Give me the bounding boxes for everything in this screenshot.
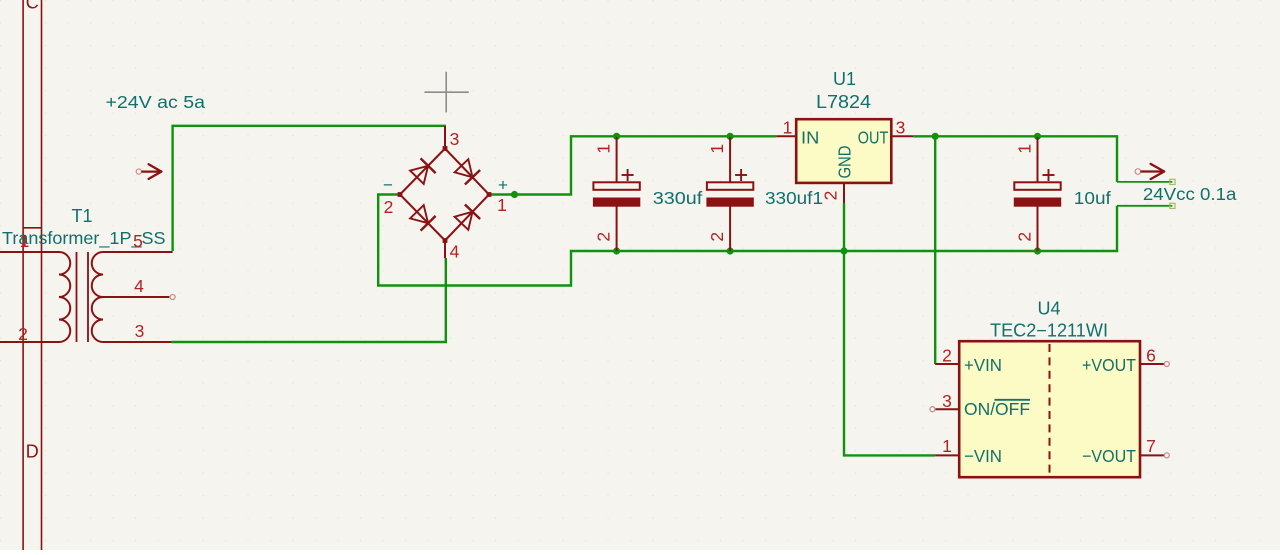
svg-text:1: 1: [783, 118, 793, 138]
transformer T1 secondary winding top (pins 5-4): [92, 252, 103, 297]
svg-text:4: 4: [134, 276, 144, 296]
svg-text:2: 2: [1015, 232, 1035, 242]
svg-text:24Vcc 0.1a: 24Vcc 0.1a: [1143, 184, 1237, 204]
svg-text:T1: T1: [71, 206, 92, 226]
bridge diode bottom-right (anode at AC bottom, cathode at +): [455, 212, 473, 230]
U4 pin 7 open end circle: [1164, 453, 1169, 458]
bridge pin 3 stub to AC top: [444, 126, 446, 149]
U1 pin 3 OUT line: [891, 135, 913, 137]
junction OUT node: [932, 133, 939, 140]
capacitor C3 10uf plus sign: [1043, 174, 1055, 176]
right arrow marker: [1135, 164, 1164, 179]
svg-text:330uf: 330uf: [653, 188, 703, 208]
svg-text:330uf1: 330uf1: [765, 188, 823, 208]
junction C1 top: [613, 133, 620, 140]
U4 pin 2 line: [935, 363, 959, 365]
capacitor C3 10uf top plate: [1014, 182, 1060, 190]
svg-text:OUT: OUT: [858, 128, 889, 148]
capacitor C1 330uf bottom lead: [616, 207, 618, 252]
junction C2 top: [727, 133, 734, 140]
svg-text:3: 3: [896, 118, 906, 138]
svg-text:TEC2−1211WI: TEC2−1211WI: [990, 321, 1108, 341]
junction C2 bottom: [727, 247, 734, 254]
svg-text:1: 1: [942, 436, 952, 456]
svg-text:10uf: 10uf: [1074, 188, 1111, 208]
U1 pin 1 IN line: [776, 135, 796, 137]
svg-text:+VOUT: +VOUT: [1082, 355, 1136, 375]
wire: U1 OUT top rail to output: [913, 136, 1117, 182]
crosshair origin marker: [424, 72, 468, 113]
capacitor C3 10uf top lead: [1037, 137, 1039, 182]
wire: bridge plus to top rail into U1 IN: [489, 136, 776, 194]
svg-text:6: 6: [1146, 346, 1156, 366]
svg-text:−VOUT: −VOUT: [1082, 446, 1136, 466]
svg-text:D: D: [26, 442, 39, 462]
transformer T1 pin 5 line: [103, 251, 173, 253]
U4 pin 7 line: [1140, 454, 1164, 456]
svg-text:GND: GND: [835, 146, 855, 179]
svg-text:U4: U4: [1037, 299, 1060, 319]
wire: bridge minus to bottom rail and output: [378, 195, 1117, 286]
converter U4 body: [959, 341, 1140, 477]
svg-text:5: 5: [133, 231, 143, 251]
transformer T1 primary pin 1 line: [0, 251, 59, 253]
junction GND rail: [840, 247, 847, 254]
wire end square top output: [1170, 179, 1175, 184]
wire: bottom output stub: [1117, 205, 1172, 207]
capacitor C2 330uf1 bottom lead: [729, 207, 731, 252]
U4 pin 1 line: [935, 454, 959, 456]
U4 pin 6 open end circle: [1164, 362, 1169, 367]
svg-text:+24V ac 5a: +24V ac 5a: [106, 92, 206, 112]
transformer T1 pin 4 open end circle: [170, 295, 175, 300]
wire end square bottom output: [1170, 203, 1175, 208]
capacitor C2 330uf1 plus sign: [735, 174, 747, 176]
sheet frame left border: [23, 0, 41, 550]
transformer T1 pin 3 line: [103, 341, 171, 343]
U4 dashed divider: [1049, 344, 1051, 473]
svg-text:+VIN: +VIN: [964, 355, 1002, 375]
capacitor C3 10uf bottom plate: [1014, 198, 1061, 207]
svg-text:C: C: [26, 0, 39, 13]
junction C3 top: [1034, 133, 1041, 140]
svg-text:2: 2: [594, 232, 614, 242]
transformer T1 core: [77, 252, 89, 342]
capacitor C2 330uf1 top lead: [729, 137, 731, 182]
svg-text:IN: IN: [801, 128, 819, 148]
wire: transformer pin3 to bridge pin4: [171, 258, 445, 342]
svg-text:3: 3: [135, 321, 145, 341]
U4 pin 6 line: [1140, 363, 1164, 365]
svg-text:4: 4: [450, 242, 460, 262]
svg-text:2: 2: [821, 191, 841, 201]
bridge rectifier D1 diamond edges: [400, 149, 489, 241]
transformer T1 primary winding: [59, 252, 70, 342]
capacitor C1 330uf top lead: [616, 137, 618, 182]
transformer T1 primary pin 2 line: [0, 341, 59, 343]
U4 pin 3 open end circle: [930, 407, 935, 412]
svg-text:−: −: [383, 176, 393, 195]
wire: transformer pin5 up to +24V ac line to bridge pin3: [173, 126, 446, 251]
wire: top output stub: [1117, 181, 1172, 183]
transformer T1 pin 4 line: [103, 296, 169, 298]
bridge pin end squares: [398, 146, 492, 243]
svg-text:3: 3: [450, 129, 460, 149]
svg-text:2: 2: [707, 232, 727, 242]
svg-text:ON/OFF: ON/OFF: [964, 399, 1030, 419]
svg-text:−VIN: −VIN: [964, 446, 1002, 466]
svg-text:2: 2: [384, 197, 394, 217]
svg-text:+: +: [498, 176, 508, 195]
svg-text:1: 1: [497, 195, 507, 215]
bridge diode bottom-left (anode at -, cathode at AC bottom): [410, 205, 428, 223]
junction C1 bottom: [613, 247, 620, 254]
wire: U1 GND down, across to U4 -VIN: [844, 203, 935, 455]
svg-text:1: 1: [1015, 144, 1035, 154]
capacitor C1 330uf bottom plate: [593, 198, 640, 207]
svg-text:2: 2: [942, 346, 952, 366]
left arrow marker: [136, 164, 161, 179]
capacitor C2 330uf1 bottom plate: [706, 198, 753, 207]
svg-text:L7824: L7824: [816, 92, 871, 112]
transformer T1 secondary winding bottom (pins 4-3): [92, 297, 103, 342]
wire: OUT node down to U4 +VIN: [934, 136, 936, 364]
junction bridge output: [511, 191, 518, 198]
capacitor C1 330uf top plate: [593, 182, 639, 190]
capacitor C1 330uf plus sign: [622, 174, 634, 176]
bridge pin 4 stub to AC bottom: [444, 241, 446, 259]
svg-text:2: 2: [18, 324, 28, 344]
svg-text:U1: U1: [833, 69, 856, 89]
svg-text:3: 3: [942, 391, 952, 411]
capacitor C3 10uf bottom lead: [1037, 207, 1039, 252]
svg-text:1: 1: [20, 231, 30, 251]
bridge diode top-right (anode at AC top, cathode at +): [455, 159, 473, 177]
capacitor C2 330uf1 top plate: [707, 182, 753, 190]
svg-text:1: 1: [594, 144, 614, 154]
op U1 L7824 body: [796, 119, 891, 183]
bridge diode top-left (anode at -, cathode at AC top): [410, 166, 428, 184]
junction C3 bottom: [1034, 247, 1041, 254]
U4 pin 3 line: [935, 408, 959, 410]
svg-text:1: 1: [707, 144, 727, 154]
U1 pin 2 GND line: [843, 183, 845, 203]
svg-text:7: 7: [1146, 436, 1156, 456]
